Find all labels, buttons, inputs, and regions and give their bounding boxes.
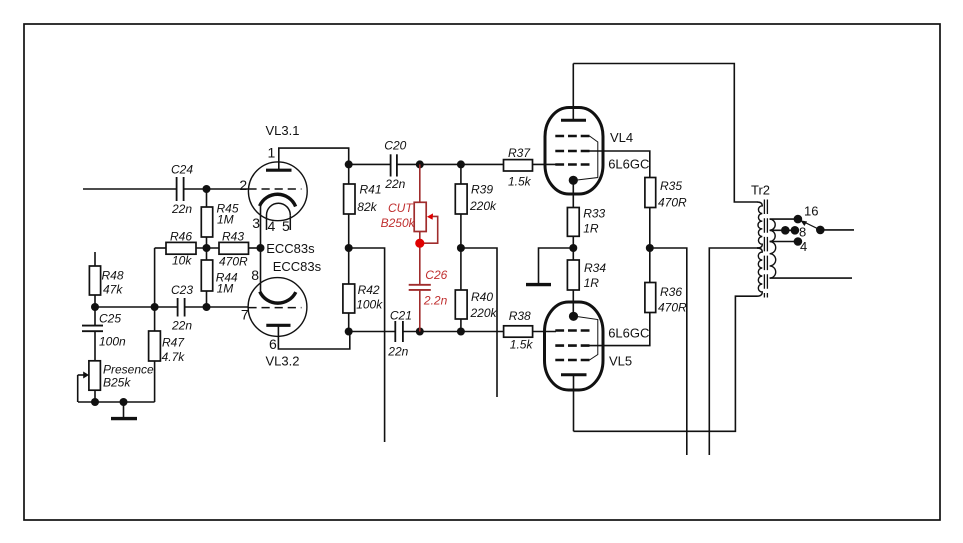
svg-text:R34: R34 xyxy=(584,261,606,275)
svg-text:1: 1 xyxy=(268,145,276,161)
svg-text:CUT: CUT xyxy=(388,201,414,215)
svg-text:22n: 22n xyxy=(387,345,408,359)
node R33/R34 xyxy=(569,244,577,252)
Tr2 tap dots xyxy=(794,215,803,224)
svg-text:C20: C20 xyxy=(384,139,406,153)
switch selector arm xyxy=(800,220,824,234)
triode VL3.2 xyxy=(248,278,350,349)
svg-text:100k: 100k xyxy=(356,298,383,312)
svg-text:1R: 1R xyxy=(584,276,600,290)
VL3.2 plate bar xyxy=(266,324,290,327)
svg-text:R38: R38 xyxy=(509,309,531,323)
node top rail R39 xyxy=(457,160,465,168)
transformer Tr2 xyxy=(757,200,802,298)
capacitor C23 xyxy=(178,298,185,317)
beam tetrode VL5 xyxy=(545,302,650,431)
svg-text:8: 8 xyxy=(251,267,259,283)
resistor R48 xyxy=(89,252,100,307)
node top rail left xyxy=(345,160,353,168)
wire output top xyxy=(820,229,854,231)
label R35 xyxy=(658,179,687,209)
Tr2 core xyxy=(763,200,765,298)
resistor R38 xyxy=(504,326,556,337)
svg-text:C26: C26 xyxy=(425,268,447,282)
wire top rail xyxy=(349,163,504,165)
node bottom rail left xyxy=(345,328,353,336)
svg-text:4: 4 xyxy=(800,239,807,254)
VL4 grid g2 dashed xyxy=(555,150,589,153)
ground middle xyxy=(526,283,551,286)
svg-text:VL4: VL4 xyxy=(610,130,633,145)
VL3.1 heater xyxy=(267,203,291,215)
svg-text:1R: 1R xyxy=(583,222,599,236)
svg-text:4: 4 xyxy=(268,218,276,234)
VL5 grid g3 dashed xyxy=(555,359,589,362)
svg-text:R40: R40 xyxy=(471,290,493,304)
svg-text:R37: R37 xyxy=(508,146,531,160)
wire VL5 plate bottom xyxy=(574,296,758,431)
node pot bottom xyxy=(91,398,99,406)
node R43/pin3/pin8 xyxy=(257,244,265,252)
label Presence B25k xyxy=(103,363,154,390)
resistor R34 xyxy=(567,260,579,316)
svg-text:R39: R39 xyxy=(471,182,493,196)
label R41 xyxy=(357,182,381,214)
svg-text:R42: R42 xyxy=(358,283,380,297)
wire to ground middle xyxy=(539,248,574,284)
svg-text:1M: 1M xyxy=(217,213,234,227)
svg-text:1.5k: 1.5k xyxy=(508,175,532,189)
wire R46 left down to C23 node xyxy=(154,248,156,307)
resistor R47 xyxy=(149,307,161,402)
Tr2 secondary winding xyxy=(770,219,776,278)
VL3.2 cathode arc xyxy=(260,292,296,304)
resistor R43 xyxy=(219,242,261,254)
svg-text:ECC83s: ECC83s xyxy=(266,241,315,256)
svg-text:6L6GC: 6L6GC xyxy=(608,325,649,340)
resistor R40 xyxy=(455,248,467,332)
resistor R41 xyxy=(344,164,355,248)
svg-text:R41: R41 xyxy=(360,182,382,196)
svg-text:470R: 470R xyxy=(658,195,687,209)
VL3.2 pin 6 wire xyxy=(278,325,349,349)
VL3.2 grid dashed xyxy=(248,307,301,309)
capacitor C21 xyxy=(395,321,403,342)
VL3.1 cathode arc xyxy=(260,194,296,206)
svg-text:47k: 47k xyxy=(103,283,123,297)
VL4 cathode wire xyxy=(572,180,574,207)
Tr2 tap 4 wire xyxy=(770,241,798,243)
label R43 xyxy=(219,230,248,269)
label CUT B250k xyxy=(381,201,416,230)
Tr2 tap 8 wire xyxy=(770,229,795,231)
wire bottom rail xyxy=(349,331,504,333)
svg-text:22n: 22n xyxy=(171,202,192,216)
node R41/R42 xyxy=(345,244,353,252)
svg-text:7: 7 xyxy=(241,307,249,323)
node C23 left xyxy=(151,303,159,311)
svg-text:6L6GC: 6L6GC xyxy=(608,157,649,172)
label C26 xyxy=(423,268,448,307)
label C25 xyxy=(99,312,126,349)
label C24 xyxy=(171,163,193,216)
svg-text:R48: R48 xyxy=(102,269,124,283)
node R35/R36 xyxy=(646,244,654,252)
svg-text:VL3.2: VL3.2 xyxy=(266,354,300,369)
wire R39 node to bias dead end xyxy=(461,248,497,397)
svg-text:470R: 470R xyxy=(658,301,687,315)
svg-text:C21: C21 xyxy=(390,309,412,323)
svg-text:VL5: VL5 xyxy=(609,354,632,369)
VL4 g3-cathode link xyxy=(575,136,598,180)
svg-text:22n: 22n xyxy=(384,177,405,191)
node ground stub xyxy=(120,398,128,406)
svg-text:470R: 470R xyxy=(219,255,248,269)
ground left xyxy=(111,402,137,419)
svg-text:10k: 10k xyxy=(172,254,192,268)
svg-text:2.2n: 2.2n xyxy=(423,293,448,307)
label R40 xyxy=(470,290,498,320)
label R42 xyxy=(356,283,383,312)
Tr2 primary winding xyxy=(757,202,762,248)
potentiometer CUT B250k xyxy=(414,164,438,284)
wire output bottom xyxy=(770,277,852,279)
svg-text:1M: 1M xyxy=(217,282,234,296)
VL5 plate wire xyxy=(573,375,575,432)
wire pin3 to pin8 cathode link xyxy=(260,205,262,291)
resistor R36 xyxy=(645,248,656,313)
VL5 g3-cathode link xyxy=(575,316,598,360)
label R46 xyxy=(170,230,192,268)
beam tetrode VL4 xyxy=(545,64,650,208)
VL3.1 pin 1 wire xyxy=(279,148,349,170)
wire C23 to VL3.2 grid xyxy=(185,306,249,308)
svg-text:C25: C25 xyxy=(99,312,121,326)
VL4 plate wire xyxy=(572,64,574,121)
svg-text:R47: R47 xyxy=(162,336,185,350)
label R33 xyxy=(583,207,605,236)
capacitor C20 xyxy=(391,154,397,176)
triode VL3.1 xyxy=(248,148,348,230)
node bottom rail R40 xyxy=(457,328,465,336)
svg-text:R43: R43 xyxy=(222,230,244,244)
label C23 xyxy=(171,283,193,332)
svg-text:8: 8 xyxy=(799,225,806,240)
node R39/R40 xyxy=(457,244,465,252)
svg-text:Tr2: Tr2 xyxy=(751,183,770,198)
node CUT wiper red xyxy=(415,239,424,248)
capacitor C24 xyxy=(177,177,184,201)
label C20 xyxy=(384,139,406,192)
capacitor C25 xyxy=(82,307,103,361)
resistor R44 xyxy=(201,248,212,307)
node top rail CUT xyxy=(416,160,424,168)
svg-text:22n: 22n xyxy=(171,319,192,333)
svg-text:VL3.1: VL3.1 xyxy=(266,123,300,138)
svg-text:6: 6 xyxy=(269,336,277,352)
VL4 plate bar xyxy=(561,119,586,122)
label R36 xyxy=(658,285,687,315)
node R45/R46/R43/R44 xyxy=(203,244,211,252)
label R45 xyxy=(217,202,239,227)
VL4 cathode dot xyxy=(569,176,578,185)
svg-text:ECC83s: ECC83s xyxy=(273,259,322,274)
VL5 cathode dot xyxy=(569,312,578,321)
VL5 g2 wire to R36 xyxy=(590,313,650,346)
VL5 grid g1 dashed xyxy=(555,329,589,332)
VL5 plate bar xyxy=(561,373,587,376)
node R48/C25 xyxy=(91,303,99,311)
svg-text:220k: 220k xyxy=(469,199,497,213)
label R48 xyxy=(102,269,124,297)
svg-text:R46: R46 xyxy=(170,230,192,244)
resistor R42 xyxy=(343,248,355,332)
VL3.1 grid dashed xyxy=(248,188,301,190)
wire bypass down xyxy=(349,248,385,442)
VL4 grid g1 dashed xyxy=(555,163,589,166)
node bottom rail C26 xyxy=(416,328,424,336)
label C21 xyxy=(387,309,412,359)
label R44 xyxy=(216,271,238,296)
svg-text:C23: C23 xyxy=(171,283,193,297)
label R38 xyxy=(509,309,534,351)
svg-text:2: 2 xyxy=(239,177,247,193)
resistor R35 xyxy=(645,178,656,249)
svg-text:5: 5 xyxy=(282,218,290,234)
wire input to C24 xyxy=(83,188,176,190)
VL4 grid g3 dashed xyxy=(555,135,589,138)
svg-text:C24: C24 xyxy=(171,163,193,177)
Tr2 tap 16 wire xyxy=(770,218,798,220)
wire bottom rail presence xyxy=(78,401,155,403)
capacitor C26 xyxy=(409,285,431,332)
resistor R33 xyxy=(567,208,579,261)
svg-text:B250k: B250k xyxy=(381,216,416,230)
svg-text:16: 16 xyxy=(804,203,818,218)
label R37 xyxy=(508,146,532,189)
label R47 xyxy=(162,336,186,365)
svg-text:1.5k: 1.5k xyxy=(510,338,534,352)
wire VL4 plate top rail xyxy=(573,64,757,203)
svg-text:220k: 220k xyxy=(470,306,498,320)
VL3.1 plate bar xyxy=(266,169,292,172)
resistor R37 xyxy=(504,160,557,171)
wire centre tap feed xyxy=(709,248,760,455)
svg-text:R33: R33 xyxy=(583,207,605,221)
label R39 xyxy=(469,182,497,213)
wire C24 to VL3.1 grid xyxy=(184,188,249,190)
svg-text:100n: 100n xyxy=(99,334,126,348)
svg-text:B25k: B25k xyxy=(103,376,131,390)
svg-text:3: 3 xyxy=(252,215,260,231)
svg-text:82k: 82k xyxy=(357,200,377,214)
VL5 grid g2 dashed xyxy=(555,344,589,347)
resistor R45 xyxy=(201,189,212,248)
node C24/R45 xyxy=(203,185,211,193)
potentiometer Presence B25k xyxy=(78,361,101,402)
resistor R39 xyxy=(455,164,467,248)
svg-text:R35: R35 xyxy=(660,179,682,193)
node C23 right / R44 xyxy=(203,303,211,311)
VL4 g2 wire to R35 xyxy=(590,151,650,178)
wire R48 node to C23 xyxy=(95,306,178,308)
label R34 xyxy=(584,261,607,290)
svg-text:Presence: Presence xyxy=(103,363,154,377)
svg-text:R36: R36 xyxy=(660,285,682,299)
resistor R46 xyxy=(155,242,219,254)
wire screen node dead end xyxy=(650,248,687,455)
svg-text:4.7k: 4.7k xyxy=(162,350,186,364)
